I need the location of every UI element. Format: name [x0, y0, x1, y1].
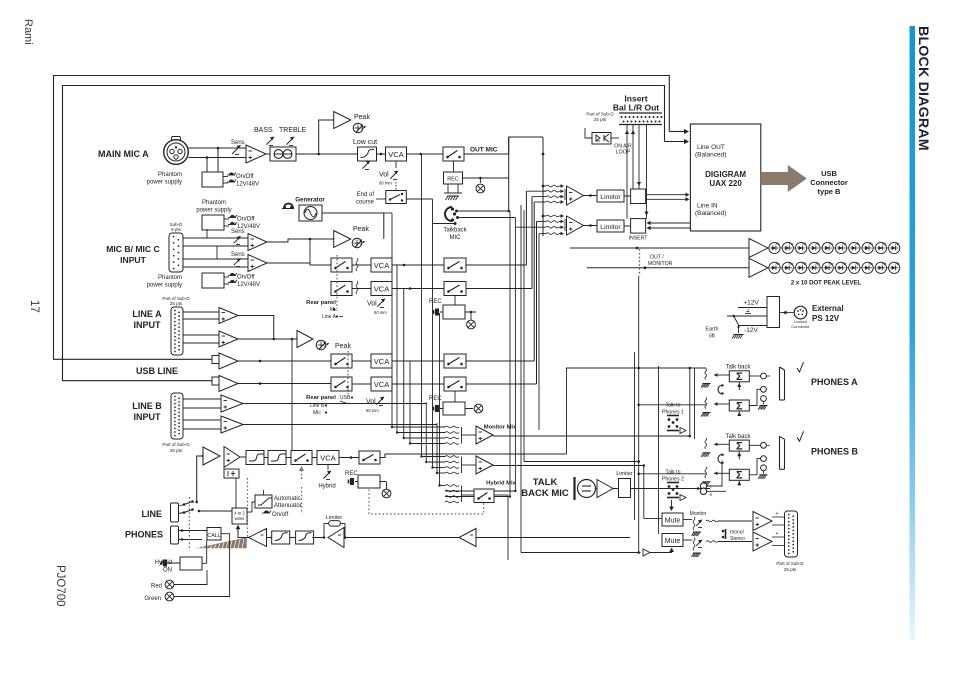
svg-text:Limitor: Limitor — [600, 224, 621, 231]
svg-text:Line OUT: Line OUT — [697, 144, 725, 151]
svg-text:17: 17 — [28, 300, 40, 313]
svg-text:type B: type B — [818, 187, 842, 196]
svg-text:60 mm: 60 mm — [366, 408, 379, 413]
svg-text:On/Off: On/Off — [236, 174, 254, 180]
svg-text:power supply: power supply — [196, 208, 231, 214]
svg-text:Σ: Σ — [736, 440, 743, 452]
svg-text:REC: REC — [447, 177, 459, 183]
svg-text:VCA: VCA — [374, 380, 389, 389]
svg-text:Connector: Connector — [791, 324, 810, 329]
svg-text:PHONES: PHONES — [125, 530, 163, 540]
svg-text:12V/48V: 12V/48V — [236, 182, 259, 188]
svg-text:wires: wires — [235, 516, 245, 521]
svg-text:Line A: Line A — [322, 314, 337, 320]
svg-text:Talk back: Talk back — [725, 365, 751, 371]
svg-text:Σ: Σ — [736, 400, 743, 412]
svg-text:CALL: CALL — [207, 533, 220, 539]
svg-text:R: R — [710, 492, 713, 497]
svg-text:TREBLE: TREBLE — [279, 127, 307, 134]
svg-text:25 pts: 25 pts — [170, 301, 183, 306]
svg-text:Peak: Peak — [335, 343, 351, 350]
svg-text:Talk to: Talk to — [666, 470, 681, 476]
svg-text:Sens: Sens — [231, 229, 245, 235]
svg-text:On/Off: On/Off — [237, 275, 255, 281]
svg-text:Mic: Mic — [313, 410, 321, 416]
svg-text:PJO700: PJO700 — [54, 565, 66, 607]
svg-text:25 pts: 25 pts — [170, 448, 183, 453]
svg-text:Peak: Peak — [354, 114, 370, 121]
svg-text:MIC: MIC — [450, 235, 462, 241]
svg-text:(Balanced): (Balanced) — [695, 152, 726, 159]
svg-text:60 mm: 60 mm — [379, 181, 392, 186]
svg-text:Limiter: Limiter — [616, 471, 633, 477]
svg-text:+: + — [776, 511, 779, 517]
svg-text:MIC B/ MIC C: MIC B/ MIC C — [106, 244, 159, 254]
svg-text:Peak: Peak — [353, 226, 369, 233]
svg-text:LOOP: LOOP — [616, 150, 631, 156]
svg-text:UAX 220: UAX 220 — [709, 179, 742, 188]
svg-text:Earth: Earth — [705, 327, 718, 333]
svg-text:REC: REC — [345, 471, 358, 477]
svg-text:+: + — [776, 531, 779, 537]
svg-text:REC: REC — [429, 299, 442, 305]
svg-text:lift: lift — [709, 334, 715, 340]
svg-text:Phantom: Phantom — [158, 172, 182, 178]
svg-text:12V/48V: 12V/48V — [237, 282, 260, 288]
svg-text:Mute: Mute — [665, 518, 681, 525]
svg-text:9 pts: 9 pts — [171, 227, 182, 232]
svg-text:Mute: Mute — [665, 538, 681, 545]
svg-text:MONITOR: MONITOR — [648, 261, 673, 267]
svg-text:4 to 2: 4 to 2 — [234, 511, 245, 516]
svg-text:REC: REC — [429, 396, 442, 402]
svg-text:Red: Red — [151, 584, 162, 590]
svg-text:Vol: Vol — [367, 301, 377, 308]
svg-text:Rami: Rami — [22, 19, 34, 45]
svg-text:course: course — [356, 200, 375, 206]
svg-text:Part of Sub-D: Part of Sub-D — [776, 561, 804, 566]
svg-text:Σ: Σ — [736, 371, 743, 383]
svg-text:Sens: Sens — [231, 252, 245, 258]
svg-text:25 pts: 25 pts — [594, 117, 607, 122]
svg-text:INPUT: INPUT — [134, 412, 162, 422]
svg-text:BLOCK DIAGRAM: BLOCK DIAGRAM — [915, 26, 931, 151]
svg-text:LINE: LINE — [141, 509, 162, 519]
svg-text:Talk to: Talk to — [666, 403, 681, 409]
svg-text:VCA: VCA — [374, 285, 389, 294]
svg-text:External: External — [812, 304, 844, 313]
svg-text:Limitor: Limitor — [600, 194, 621, 201]
svg-text:OUT MIC: OUT MIC — [470, 147, 498, 154]
svg-text:+12V: +12V — [743, 300, 759, 307]
svg-text:PHONES A: PHONES A — [811, 377, 858, 387]
svg-text:60 mm: 60 mm — [374, 310, 387, 315]
svg-text:VCA: VCA — [388, 150, 403, 159]
svg-text:On/Off: On/Off — [237, 217, 255, 223]
svg-text:USB: USB — [821, 169, 837, 178]
svg-text:End of: End of — [357, 192, 375, 198]
svg-text:LINE A: LINE A — [132, 309, 162, 319]
svg-text:Phones 2: Phones 2 — [662, 477, 684, 483]
svg-text:Phantom: Phantom — [202, 200, 226, 206]
svg-text:Talk back: Talk back — [725, 434, 751, 440]
svg-text:Vol: Vol — [379, 172, 389, 179]
svg-text:INPUT: INPUT — [134, 320, 162, 330]
svg-text:OUT /: OUT / — [650, 255, 664, 261]
svg-text:Σ: Σ — [736, 470, 743, 482]
svg-text:BASS: BASS — [254, 127, 273, 134]
svg-text:Vol: Vol — [366, 399, 376, 406]
svg-text:Rear panel: Rear panel — [306, 300, 336, 306]
svg-text:TALK: TALK — [533, 477, 558, 488]
svg-text:VCA: VCA — [320, 454, 335, 463]
svg-text:Monitor: Monitor — [690, 511, 707, 517]
svg-text:Sens: Sens — [231, 140, 245, 146]
svg-text:power supply: power supply — [147, 283, 182, 289]
svg-text:Hybrid: Hybrid — [318, 484, 335, 490]
svg-text:Bal L/R Out: Bal L/R Out — [613, 103, 659, 113]
svg-text:25 pts: 25 pts — [784, 567, 797, 572]
svg-text:USB: USB — [340, 395, 351, 401]
svg-text:MAIN MIC A: MAIN MIC A — [98, 149, 149, 159]
svg-text:Generator: Generator — [295, 197, 325, 204]
svg-text:Part of Sub-D: Part of Sub-D — [586, 112, 614, 117]
svg-text:DIGIGRAM: DIGIGRAM — [705, 170, 746, 179]
svg-text:PS 12V: PS 12V — [812, 314, 840, 323]
svg-text:Phantom: Phantom — [158, 275, 182, 281]
svg-text:Talkback: Talkback — [443, 228, 467, 234]
svg-text:On/off: On/off — [272, 512, 289, 518]
svg-text:(Balanced): (Balanced) — [695, 210, 726, 217]
svg-text:BACK MIC: BACK MIC — [521, 488, 569, 499]
svg-text:power supply: power supply — [147, 180, 182, 186]
svg-text:Monitor Mix: Monitor Mix — [484, 425, 517, 431]
svg-text:Phones 1: Phones 1 — [662, 410, 684, 416]
svg-text:Line IN: Line IN — [697, 203, 718, 210]
svg-text:Part of Sub-D: Part of Sub-D — [162, 442, 190, 447]
svg-text:Connector: Connector — [810, 178, 848, 187]
svg-text:Rear panel: Rear panel — [306, 395, 336, 401]
svg-text:-12V: -12V — [744, 327, 758, 334]
svg-text:PHONES B: PHONES B — [811, 446, 859, 456]
svg-text:2 x 10 DOT PEAK LEVEL: 2 x 10 DOT PEAK LEVEL — [791, 281, 862, 287]
svg-text:INSERT: INSERT — [629, 236, 649, 242]
svg-text:Automatic: Automatic — [274, 496, 301, 502]
svg-text:VCA: VCA — [374, 357, 389, 366]
svg-text:ON: ON — [163, 568, 172, 574]
svg-text:INPUT: INPUT — [120, 255, 147, 265]
svg-text:Low cut: Low cut — [353, 139, 377, 146]
svg-text:LINE B: LINE B — [132, 401, 162, 411]
svg-text:USB LINE: USB LINE — [136, 366, 178, 376]
svg-text:Green: Green — [144, 596, 161, 602]
svg-text:mono/: mono/ — [730, 530, 745, 536]
svg-text:Hybrid Mix: Hybrid Mix — [486, 481, 516, 487]
svg-text:Attenuator: Attenuator — [274, 503, 302, 509]
svg-text:VCA: VCA — [374, 261, 389, 270]
